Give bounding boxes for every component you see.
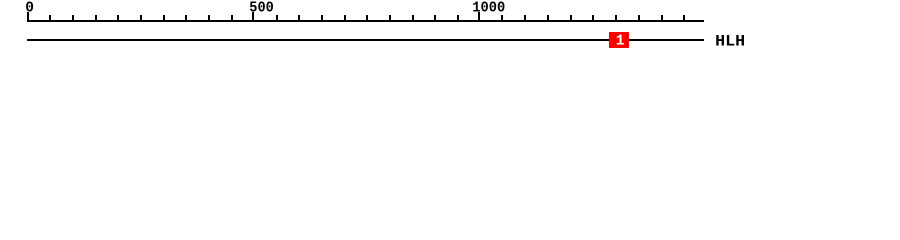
ruler major tick 500 (252, 12, 254, 22)
sequence line (27, 39, 704, 41)
svg-text:HLH: HLH (715, 33, 745, 51)
ruler minor ticks (49, 15, 233, 22)
ruler minor ticks (276, 15, 459, 22)
ruler major tick 0 (27, 12, 29, 22)
svg-text:1: 1 (616, 34, 625, 50)
svg-text:1000: 1000 (472, 1, 505, 17)
ruler major tick 1000 (478, 12, 480, 22)
ruler minor ticks (501, 15, 685, 22)
svg-text:500: 500 (249, 1, 273, 17)
ruler axis line (27, 20, 704, 22)
domain box (match 1) (609, 32, 629, 48)
svg-text:0: 0 (25, 1, 34, 17)
